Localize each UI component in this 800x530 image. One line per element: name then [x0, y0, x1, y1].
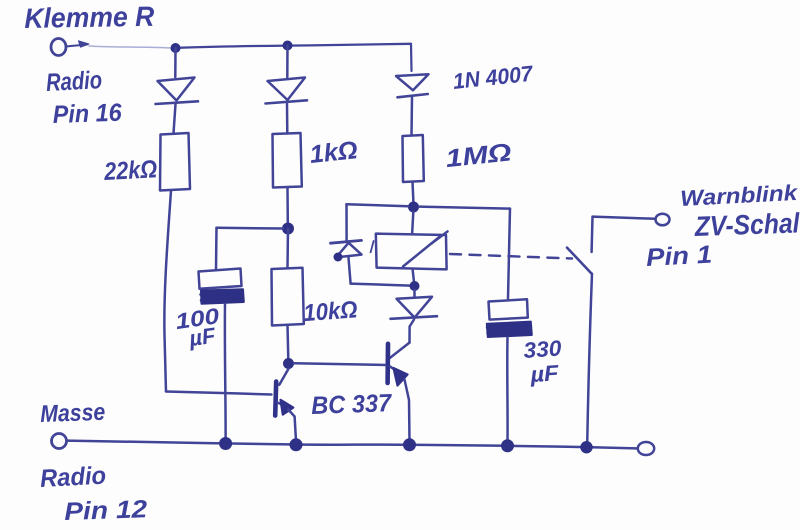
wire [286, 188, 289, 225]
node bottom I [219, 437, 232, 450]
node bottom J [501, 439, 514, 452]
svg-text:BC 337: BC 337 [311, 389, 393, 420]
wire from Pin1 [592, 217, 656, 252]
transistor Q1 emitter [278, 403, 289, 408]
relay K1 coil box [376, 234, 447, 270]
svg-text:22kΩ: 22kΩ [103, 155, 158, 186]
resistor R4 1M [403, 135, 424, 182]
resistor R1 22k [160, 133, 190, 191]
diode D6 [413, 290, 416, 297]
svg-text:Radio: Radio [39, 462, 106, 493]
svg-text:Warnblink: Warnblink [680, 180, 800, 211]
wire top horizontal [178, 44, 411, 48]
capacitor C1 100uF bottom plate [201, 289, 244, 304]
wire right vertical to C2 [508, 209, 510, 299]
wire relay bottom [413, 270, 414, 283]
wire flyback bottom [351, 284, 410, 286]
transistor Q2 base bar [385, 344, 390, 383]
capacitor C2 330uF top plate [489, 299, 528, 319]
diode D2 [268, 78, 306, 101]
wire [410, 98, 413, 136]
wire long left [164, 191, 171, 392]
wire [286, 104, 289, 134]
wire [174, 48, 177, 77]
wire [411, 182, 414, 202]
svg-text:Radio: Radio [45, 66, 102, 97]
capacitor C1 100uF top plate [199, 269, 242, 289]
node junction C [282, 223, 294, 235]
wire Q1 base [166, 392, 272, 395]
transistor Q1 BC337 collector lead [279, 369, 288, 385]
svg-text:µF: µF [187, 323, 218, 352]
wire capacitor C1 top link [217, 227, 284, 230]
svg-text:10kΩ: 10kΩ [303, 296, 359, 327]
wire [410, 320, 415, 343]
wire [286, 46, 289, 78]
node junction top B [283, 41, 293, 51]
wire top right corner down [410, 44, 413, 71]
dashed actuation link relay to switch [450, 254, 572, 259]
terminal Pin 1 [656, 214, 670, 226]
wire ground bottom [67, 441, 638, 449]
svg-text:Masse: Masse [40, 399, 106, 428]
transistor Q1 base bar [275, 382, 276, 416]
transistor Q2 BC337 collector lead [390, 343, 410, 358]
node bottom G [403, 438, 416, 451]
wire switch down [587, 274, 592, 444]
svg-text:Pin 1: Pin 1 [645, 241, 712, 272]
svg-text:1MΩ: 1MΩ [444, 138, 513, 173]
svg-text:ZV-Schalt: ZV-Schalt [693, 207, 800, 242]
relay diagonal [403, 232, 448, 267]
transistor Q2 emitter [390, 366, 399, 372]
switch S1 lever [567, 248, 592, 274]
svg-text:µF: µF [529, 360, 560, 387]
wire [286, 326, 289, 360]
arrow on wire [66, 45, 88, 47]
svg-text:Pin 16: Pin 16 [52, 99, 123, 129]
terminal Masse [52, 434, 67, 449]
svg-text:330: 330 [523, 335, 563, 363]
capacitor C2 330uF bottom plate [487, 322, 532, 337]
wire relay loop top right [419, 207, 510, 209]
node junction E [408, 202, 419, 213]
node bottom K [580, 441, 592, 453]
terminal Klemme R [51, 39, 66, 56]
wire faint top segment [89, 46, 172, 48]
wire relay loop top left [347, 204, 409, 206]
wire flyback left vertical [345, 204, 348, 240]
diode D3 1N4007 [396, 74, 429, 90]
node bottom H [290, 438, 303, 451]
wire C2 down [506, 338, 509, 443]
wire [286, 229, 289, 268]
wire [412, 212, 413, 233]
resistor R3 10k [272, 268, 304, 326]
wire [349, 258, 351, 284]
node junction F [410, 281, 420, 291]
wire Q2 base [294, 363, 386, 365]
terminal right open [638, 442, 654, 455]
wire C1 down [224, 304, 227, 440]
wire [174, 104, 176, 134]
diode D1 [158, 78, 195, 101]
diode D5 flyback [331, 240, 362, 243]
svg-text:Pin 12: Pin 12 [64, 495, 148, 526]
svg-text:1N 4007: 1N 4007 [452, 61, 536, 94]
svg-text:Klemme R: Klemme R [24, 1, 155, 34]
svg-text:1kΩ: 1kΩ [308, 136, 359, 169]
node junction D [283, 358, 294, 369]
resistor R2 1k [273, 133, 302, 188]
node junction top A [171, 43, 181, 53]
